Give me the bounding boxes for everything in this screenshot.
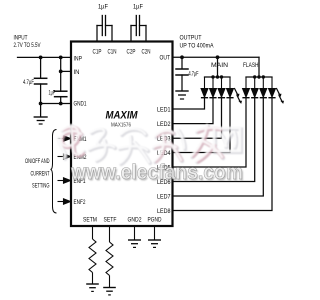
wire LED4 [173,98,231,152]
svg-text:FLASH: FLASH [243,62,259,69]
svg-text:INP: INP [74,55,83,62]
ground GND2 [128,226,141,247]
wire LED8 [173,98,273,210]
svg-text:GND1: GND1 [74,101,87,108]
capacitor C_IN2 1uF [55,90,67,92]
svg-text:LED8: LED8 [157,208,171,215]
wire FLASH feed [258,57,260,77]
resistor R_SETF [103,226,116,295]
wire LED6 [173,98,255,181]
enable input arrows [58,136,71,204]
watermark shadow layer [58,126,241,164]
svg-text:MAXIM: MAXIM [106,110,139,122]
svg-text:PGND: PGND [148,217,162,224]
wire LED3 [173,98,222,138]
wire LED7 [173,98,264,196]
svg-text:4.7µF: 4.7µF [189,72,199,78]
node junction dots [39,55,265,105]
svg-text:OUTPUT: OUTPUT [180,35,202,42]
svg-text:IN: IN [74,69,80,76]
wire input rail to INP [18,56,72,58]
wire MAIN feed [217,57,219,77]
svg-text:LED2: LED2 [157,121,171,128]
svg-text:ENF2: ENF2 [74,199,86,206]
svg-text:CURRENT: CURRENT [31,171,50,178]
capacitor C_IN 4.7uF [40,57,42,78]
svg-text:SETF: SETF [104,217,117,224]
wire LED5 [173,98,247,167]
svg-text:www.elecfans.com: www.elecfans.com [70,161,243,184]
op-amp U1 MAX1576 IC body [71,42,173,227]
svg-text:INPUT: INPUT [14,35,28,42]
capacitor C_OUT 4.7uF [181,57,183,69]
svg-text:C2P: C2P [127,49,136,56]
LED group MAIN : 4 LEDs [201,77,276,98]
arrow ENF2 [58,201,65,203]
wire IN branch vertical [60,57,62,91]
ground PGND [148,226,161,247]
svg-text:LED1: LED1 [157,106,171,113]
wire MAIN anode rail [205,76,231,78]
wire LED1 [173,98,205,109]
svg-text:1µF: 1µF [49,91,56,97]
svg-text:4.7µF: 4.7µF [23,80,34,86]
svg-text:OUT: OUT [160,55,171,62]
ground input [40,104,42,117]
wire OUT rail [173,56,260,58]
LED emission arrows MAIN [234,88,242,104]
wire LED2 [173,98,214,123]
watermark highlight layer [57,125,240,163]
pin labels inside IC [74,49,171,224]
svg-text:SETTING: SETTING [32,183,50,190]
staircase wires LED1-LED8 [173,98,273,210]
arrow ENM2 [58,156,65,158]
svg-text:GND2: GND2 [128,217,142,224]
svg-text:UP TO 400mA: UP TO 400mA [180,44,214,50]
svg-text:C1N: C1N [108,49,117,56]
svg-text:C1P: C1P [93,49,102,56]
ground output cap [176,90,188,92]
watermark www.elecfans.com [70,161,244,185]
resistor R_SETM [86,226,99,291]
arrow ENM1 [58,138,65,140]
svg-text:2.7V TO 5.5V: 2.7V TO 5.5V [14,43,41,49]
svg-text:C2N: C2N [142,49,151,56]
capacitor C2 1uF flying [130,26,132,42]
svg-text:ON/OFF AND: ON/OFF AND [25,158,50,165]
svg-text:LED7: LED7 [157,193,171,200]
svg-text:MAIN: MAIN [211,62,228,69]
wire GND1 rail [41,103,71,105]
svg-text:1µF: 1µF [133,4,143,11]
brace for ON/OFF settings [51,130,57,214]
capacitor C1 1uF flying [96,26,98,42]
LED emission arrows FLASH [276,88,284,104]
wire FLASH anode rail [246,76,272,78]
svg-text:MAX1576: MAX1576 [111,123,131,129]
svg-text:SETM: SETM [83,217,97,224]
wire IN pin [61,70,71,72]
arrow ENF1 [58,180,65,182]
svg-text:1µF: 1µF [98,4,108,11]
